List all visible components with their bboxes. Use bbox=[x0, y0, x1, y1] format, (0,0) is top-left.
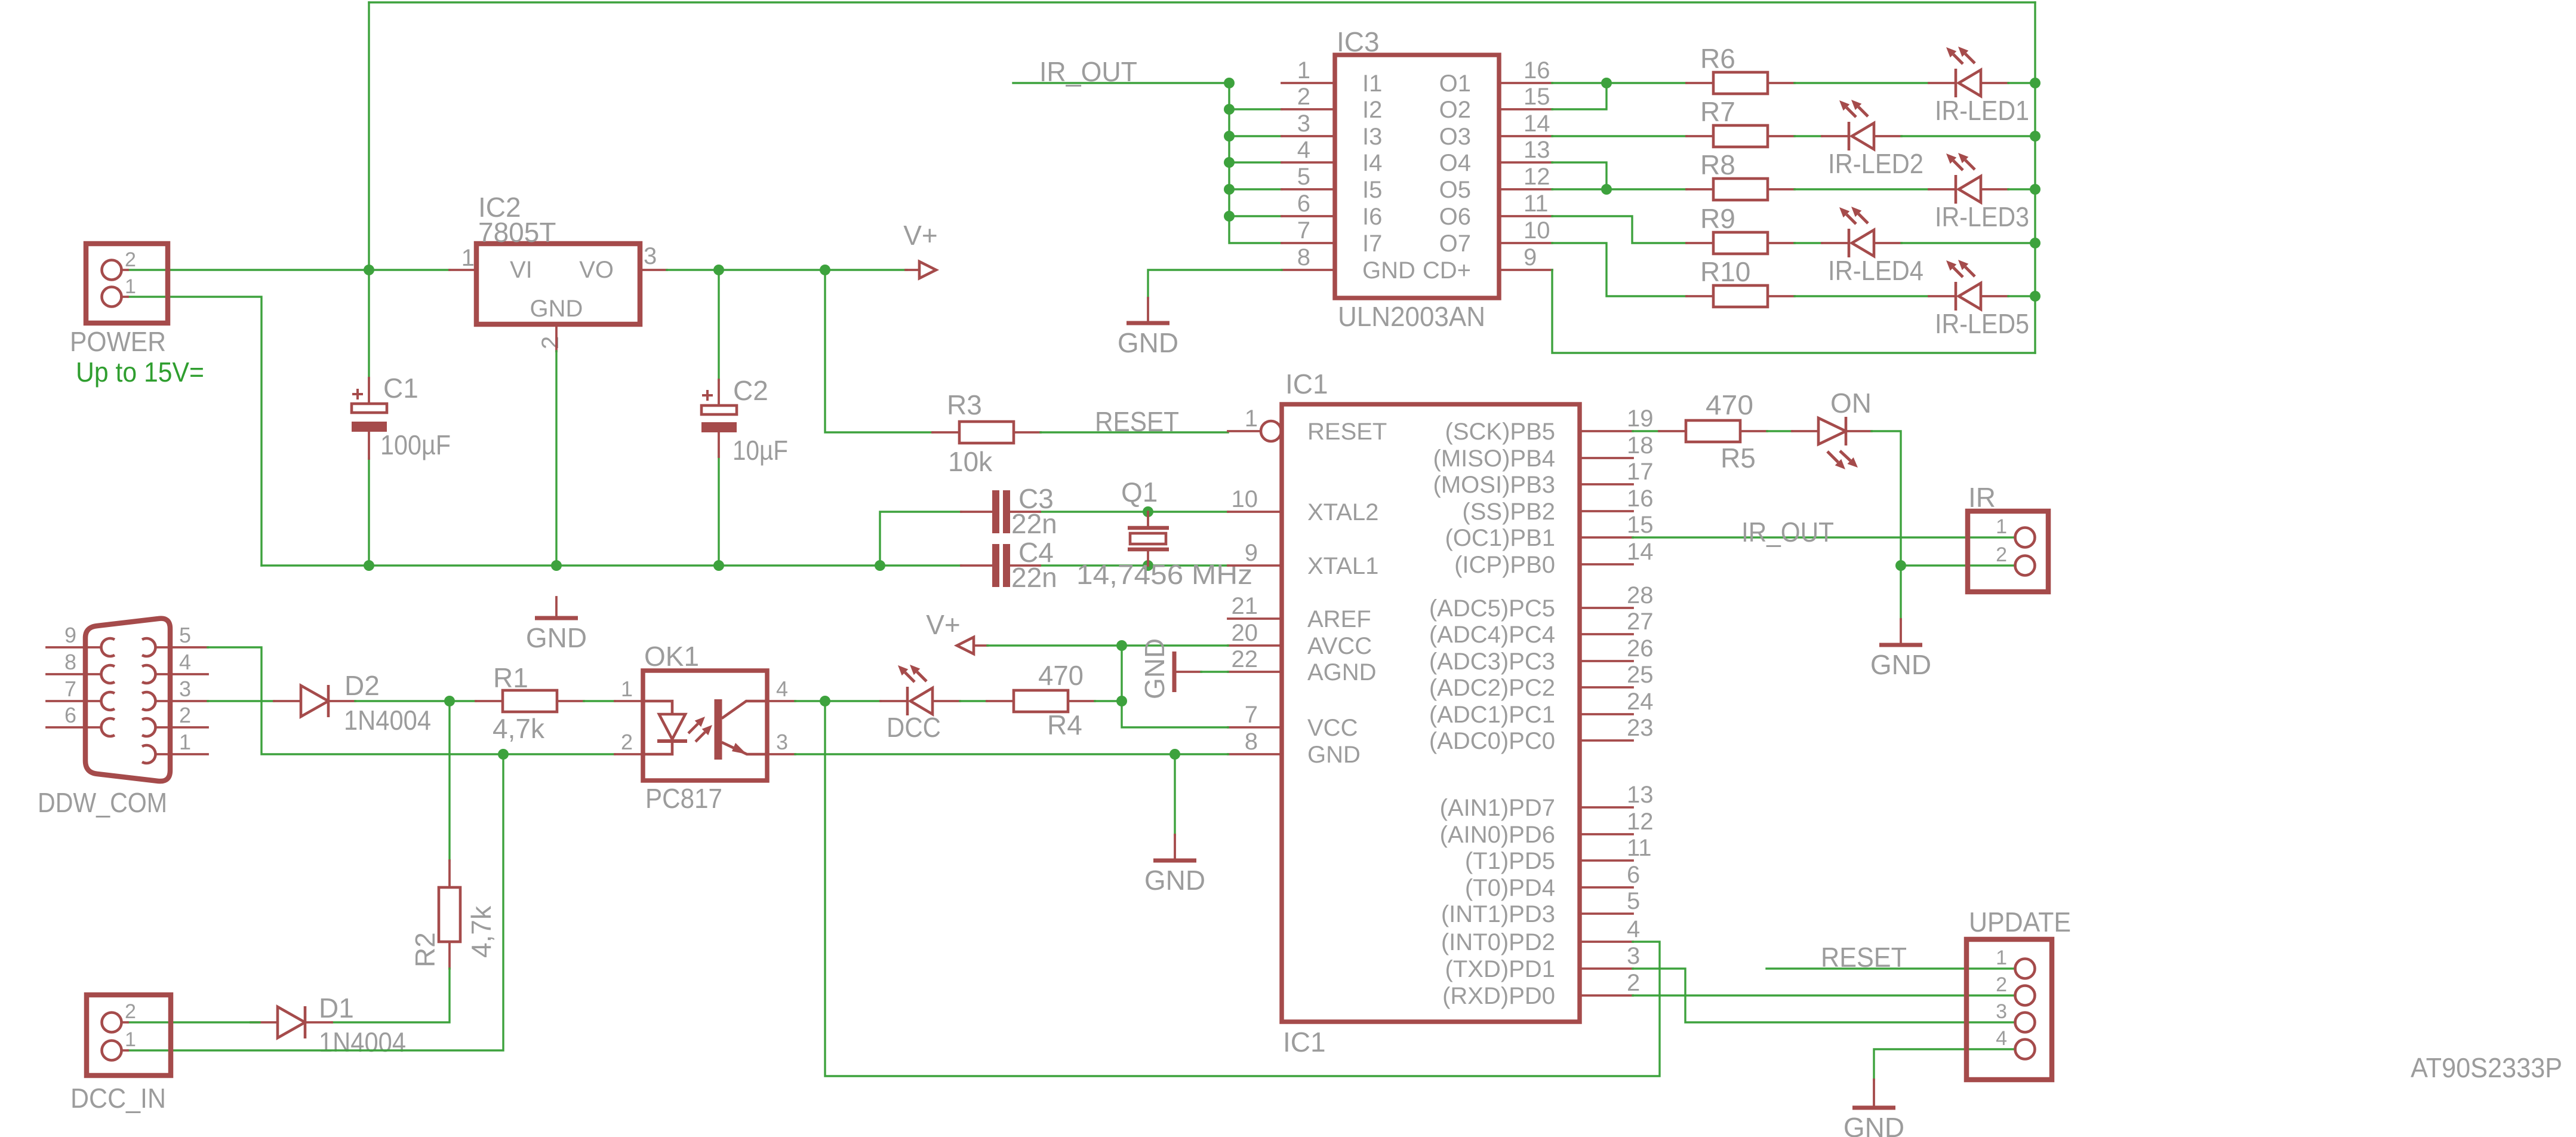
wire V+ top rail bbox=[369, 1, 2035, 3]
node IC2 GND rail dot bbox=[551, 560, 562, 571]
svg-text:GND: GND bbox=[1118, 327, 1178, 358]
svg-text:9: 9 bbox=[1245, 540, 1258, 566]
svg-text:10: 10 bbox=[1232, 486, 1258, 512]
capacitor C2 bbox=[701, 375, 788, 466]
svg-text:2: 2 bbox=[125, 1000, 136, 1023]
svg-text:ULN2003AN: ULN2003AN bbox=[1338, 301, 1485, 332]
svg-text:R1: R1 bbox=[493, 662, 528, 693]
led IR-LED2 bbox=[1822, 100, 1923, 179]
symbol OK1 phototransistor bbox=[718, 699, 767, 760]
svg-text:CD+: CD+ bbox=[1423, 257, 1471, 284]
svg-text:2: 2 bbox=[1627, 970, 1640, 996]
svg-text:D2: D2 bbox=[344, 670, 380, 701]
supply V+ arrow left bbox=[926, 609, 987, 654]
wire O4 join O5 bbox=[1552, 162, 1606, 189]
wire D2 to R1 node bbox=[355, 700, 450, 702]
svg-text:IC1: IC1 bbox=[1283, 1027, 1326, 1058]
svg-text:2: 2 bbox=[1996, 973, 2007, 996]
svg-text:(MISO)PB4: (MISO)PB4 bbox=[1433, 445, 1555, 472]
svg-text:1N4004: 1N4004 bbox=[319, 1027, 406, 1058]
svg-text:(MOSI)PB3: (MOSI)PB3 bbox=[1433, 472, 1555, 498]
wire O2 join O1 bbox=[1552, 83, 1606, 109]
svg-text:(T0)PD4: (T0)PD4 bbox=[1465, 875, 1555, 901]
svg-text:6: 6 bbox=[1297, 190, 1310, 217]
svg-text:I1: I1 bbox=[1362, 70, 1382, 97]
svg-text:4: 4 bbox=[776, 677, 788, 701]
wire PB5 to R5 bbox=[1633, 430, 1659, 432]
svg-text:IR: IR bbox=[1968, 482, 1996, 513]
svg-text:C1: C1 bbox=[383, 373, 418, 404]
node C2 dot bbox=[713, 265, 724, 275]
wire C2 branch bbox=[718, 270, 719, 566]
pin IC1 right stubs bbox=[1580, 431, 1633, 995]
svg-text:4,7k: 4,7k bbox=[493, 713, 545, 744]
resistor R3 bbox=[932, 389, 1041, 477]
svg-text:PC817: PC817 bbox=[645, 783, 722, 814]
svg-text:28: 28 bbox=[1627, 582, 1654, 609]
wire XTAL1 row bbox=[1040, 564, 1228, 566]
svg-text:DCC: DCC bbox=[887, 712, 941, 743]
pin OK1 stubs bbox=[615, 701, 795, 754]
led DCC bbox=[881, 665, 960, 743]
wire R5 to ON led bbox=[1767, 430, 1792, 432]
pin IC3 left stubs bbox=[1282, 83, 1335, 270]
svg-text:1: 1 bbox=[179, 730, 191, 754]
svg-text:14: 14 bbox=[1627, 539, 1654, 565]
label IR_OUT right bbox=[1741, 517, 1834, 548]
svg-text:VI: VI bbox=[510, 257, 533, 283]
resistor R10 bbox=[1686, 256, 1795, 307]
svg-text:AGND: AGND bbox=[1307, 659, 1377, 686]
svg-text:1: 1 bbox=[125, 1028, 136, 1051]
label OK1 pin numbers bbox=[621, 677, 788, 754]
wire PD0 RXD to UPDATE pin2 bbox=[1633, 994, 2015, 996]
svg-text:(ADC2)PC2: (ADC2)PC2 bbox=[1429, 675, 1555, 701]
node LED4 rail dot bbox=[2030, 238, 2041, 248]
led IR-LED4 bbox=[1822, 207, 1923, 286]
svg-text:R10: R10 bbox=[1700, 256, 1750, 287]
wire DCC led to R4 bbox=[960, 700, 987, 702]
svg-text:V+: V+ bbox=[903, 220, 938, 251]
svg-text:16: 16 bbox=[1627, 485, 1654, 512]
wire VO to V+ arrow bbox=[667, 269, 907, 271]
svg-text:18: 18 bbox=[1627, 432, 1654, 459]
svg-text:IC1: IC1 bbox=[1285, 368, 1328, 400]
svg-text:24: 24 bbox=[1627, 689, 1654, 715]
wire node to R1 bbox=[450, 700, 476, 702]
svg-text:GND: GND bbox=[1139, 638, 1170, 699]
svg-text:9: 9 bbox=[64, 623, 76, 647]
pin DB9 stubs bbox=[47, 647, 208, 754]
ground GND at IR bbox=[1870, 619, 1931, 680]
svg-text:14: 14 bbox=[1524, 110, 1550, 137]
svg-text:R3: R3 bbox=[947, 389, 982, 420]
svg-text:V+: V+ bbox=[926, 609, 961, 640]
svg-text:4: 4 bbox=[1627, 916, 1640, 942]
node LED1 rail dot bbox=[2030, 78, 2041, 88]
supply V+ arrow right bbox=[903, 220, 938, 278]
svg-text:I4: I4 bbox=[1362, 150, 1382, 176]
wire R3 branch down bbox=[825, 270, 932, 432]
svg-text:2: 2 bbox=[179, 703, 191, 727]
svg-text:11: 11 bbox=[1627, 835, 1652, 861]
svg-text:(ADC5)PC5: (ADC5)PC5 bbox=[1429, 595, 1555, 622]
svg-text:12: 12 bbox=[1524, 164, 1550, 190]
svg-text:23: 23 bbox=[1627, 715, 1654, 741]
svg-text:GND: GND bbox=[1307, 742, 1361, 768]
wire ON led to GND branch bbox=[1872, 431, 1901, 619]
wire R2 to D1 row bbox=[332, 969, 450, 1022]
svg-text:DDW_COM: DDW_COM bbox=[38, 787, 167, 818]
ic IC1 box bbox=[1282, 368, 1580, 1058]
led IR-LED5 bbox=[1929, 260, 2029, 339]
svg-text:3: 3 bbox=[1627, 943, 1640, 969]
wire R8 to IR-LED3 bbox=[1795, 188, 1929, 190]
svg-text:16: 16 bbox=[1524, 57, 1550, 84]
svg-text:(ADC3)PC3: (ADC3)PC3 bbox=[1429, 649, 1555, 675]
capacitor C4 bbox=[961, 537, 1057, 593]
connector UPDATE bbox=[1966, 906, 2071, 1080]
svg-text:GND: GND bbox=[1144, 865, 1205, 896]
svg-text:GND: GND bbox=[526, 622, 587, 653]
svg-text:VCC: VCC bbox=[1307, 715, 1358, 741]
svg-text:10µF: 10µF bbox=[733, 435, 788, 466]
svg-text:RESET: RESET bbox=[1821, 942, 1907, 973]
wire C1 branch bbox=[368, 270, 370, 566]
svg-text:100µF: 100µF bbox=[380, 429, 451, 460]
wire DCC_IN pin2 to D1 bbox=[128, 1021, 260, 1023]
svg-text:O6: O6 bbox=[1439, 204, 1471, 230]
label RESET net bbox=[1095, 406, 1179, 437]
svg-text:1: 1 bbox=[1996, 515, 2007, 538]
svg-text:I3: I3 bbox=[1362, 124, 1382, 150]
svg-text:GND: GND bbox=[1362, 257, 1415, 284]
resistor R7 bbox=[1686, 96, 1795, 147]
svg-text:27: 27 bbox=[1627, 609, 1654, 635]
led ON bbox=[1792, 388, 1872, 469]
svg-text:11: 11 bbox=[1524, 190, 1549, 217]
pin DB9 contacts bbox=[101, 638, 156, 763]
svg-text:IR_OUT: IR_OUT bbox=[1039, 56, 1137, 87]
svg-text:2: 2 bbox=[1297, 84, 1310, 110]
wire R9 to IR-LED4 bbox=[1795, 242, 1822, 244]
wire PD2 to DCC net bbox=[825, 701, 1660, 1076]
label IR_OUT bbox=[1039, 56, 1137, 87]
label IC3 pin names bbox=[1362, 70, 1471, 284]
node XTAL1 crystal dot bbox=[1143, 560, 1153, 571]
svg-text:470: 470 bbox=[1038, 660, 1084, 691]
wire IR_OUT to IR connector bbox=[1633, 536, 2015, 538]
svg-text:O7: O7 bbox=[1439, 231, 1471, 257]
svg-text:R6: R6 bbox=[1700, 43, 1735, 74]
svg-text:(T1)PD5: (T1)PD5 bbox=[1465, 848, 1555, 874]
pin IC2 VO stub bbox=[640, 269, 667, 271]
node DCC_IN pin1 join dot bbox=[498, 749, 509, 760]
connector IR bbox=[1968, 482, 2048, 592]
connector POWER bbox=[70, 244, 168, 357]
svg-text:5: 5 bbox=[1297, 164, 1310, 190]
resistor R5 bbox=[1659, 389, 1767, 474]
node C3 gnd dot bbox=[875, 560, 885, 571]
svg-text:22n: 22n bbox=[1011, 508, 1057, 539]
svg-text:470: 470 bbox=[1706, 389, 1753, 420]
ground GND under IC2 bbox=[526, 597, 587, 653]
node XTAL2 crystal dot bbox=[1143, 506, 1153, 517]
svg-text:ON: ON bbox=[1830, 388, 1872, 419]
wire R7 to IR-LED2 bbox=[1795, 135, 1822, 137]
resistor R6 bbox=[1686, 43, 1795, 94]
svg-text:AVCC: AVCC bbox=[1307, 633, 1372, 659]
node IC1 GND dot bbox=[1169, 749, 1180, 760]
svg-text:Up to 15V=: Up to 15V= bbox=[76, 357, 204, 388]
svg-text:4: 4 bbox=[1996, 1027, 2007, 1050]
wire IR_OUT to IC3 inputs bbox=[1013, 82, 1228, 84]
wire RESET to UPDATE pin1 bbox=[1766, 967, 2015, 969]
wire R10 to IR-LED5 bbox=[1795, 295, 1929, 297]
node LED3 rail dot bbox=[2030, 184, 2041, 195]
node LED2 rail dot bbox=[2030, 131, 2041, 142]
svg-text:O1: O1 bbox=[1439, 70, 1471, 97]
svg-text:1: 1 bbox=[125, 275, 136, 298]
ground GND at UPDATE bbox=[1843, 1080, 1904, 1137]
label Up to 15V= bbox=[76, 357, 204, 388]
svg-text:IR-LED4: IR-LED4 bbox=[1828, 255, 1923, 286]
wire AVCC branch to VCC bbox=[1122, 646, 1228, 727]
svg-text:GND: GND bbox=[1843, 1112, 1904, 1137]
svg-text:2: 2 bbox=[125, 248, 136, 271]
svg-text:AT90S2333P: AT90S2333P bbox=[2411, 1052, 2562, 1083]
pin IC1 RESET stub with circle bbox=[1228, 421, 1281, 441]
node O5 dot bbox=[1601, 184, 1612, 195]
svg-text:5: 5 bbox=[1627, 888, 1640, 914]
svg-text:22: 22 bbox=[1232, 646, 1258, 672]
label IC1 left pin names bbox=[1307, 419, 1387, 768]
wire LED1 to rail bbox=[2008, 82, 2035, 84]
led IR-LED1 bbox=[1929, 47, 2029, 126]
resistor R2 bbox=[410, 861, 497, 969]
svg-text:3: 3 bbox=[179, 677, 191, 701]
svg-text:(INT0)PD2: (INT0)PD2 bbox=[1441, 929, 1555, 955]
node C2 rail dot bbox=[713, 560, 724, 571]
wire V+ left drop to VI node bbox=[368, 2, 370, 270]
svg-text:3: 3 bbox=[1297, 110, 1310, 137]
svg-text:GND: GND bbox=[530, 296, 583, 322]
svg-text:XTAL1: XTAL1 bbox=[1307, 553, 1378, 579]
svg-text:R8: R8 bbox=[1700, 149, 1735, 180]
node O1 dot bbox=[1601, 78, 1612, 88]
node R3 branch dot bbox=[820, 265, 830, 275]
wire LED4 to rail bbox=[1901, 242, 2035, 244]
svg-text:R5: R5 bbox=[1721, 442, 1756, 474]
svg-text:AREF: AREF bbox=[1307, 606, 1371, 632]
node AVCC dot bbox=[1116, 640, 1127, 651]
wire O6 row to R9 bbox=[1552, 216, 1686, 243]
wire anode right rail bbox=[2034, 2, 2036, 353]
node DCC junction dot bbox=[820, 696, 830, 706]
svg-text:15: 15 bbox=[1627, 512, 1654, 538]
svg-text:22n: 22n bbox=[1011, 562, 1057, 593]
ground GND IC3 bbox=[1118, 298, 1178, 358]
svg-text:6: 6 bbox=[1627, 862, 1640, 888]
label IC1 right pin numbers bbox=[1627, 405, 1654, 996]
wire CD+ to anode rail bbox=[1552, 270, 2035, 353]
svg-text:GND: GND bbox=[1870, 649, 1931, 680]
node R4 AVCC dot bbox=[1116, 696, 1127, 706]
node LED5 rail dot bbox=[2030, 291, 2041, 302]
svg-text:12: 12 bbox=[1627, 809, 1654, 835]
svg-text:5: 5 bbox=[179, 623, 191, 647]
svg-text:DCC_IN: DCC_IN bbox=[70, 1083, 166, 1114]
label IC1 left pin numbers bbox=[1232, 405, 1258, 755]
wire O5 row to R8 bbox=[1552, 188, 1686, 190]
svg-text:POWER: POWER bbox=[70, 326, 166, 357]
svg-text:D1: D1 bbox=[319, 992, 354, 1024]
ground AGND sideways bbox=[1139, 638, 1228, 699]
wire R1 to OK1 pin1 bbox=[584, 700, 615, 702]
led IR-LED3 bbox=[1929, 153, 2029, 232]
wire OK1 pin3 to IC1 GND bbox=[795, 753, 1228, 755]
wire POWER pin1 to GND rail bbox=[128, 297, 261, 566]
svg-text:1N4004: 1N4004 bbox=[344, 705, 431, 736]
wire DCC_IN pin1 up to OK1 pin2 net bbox=[128, 754, 503, 1050]
pin IC1 left stubs bbox=[1228, 512, 1282, 754]
svg-text:25: 25 bbox=[1627, 662, 1654, 688]
wire LED2 to rail bbox=[1901, 135, 2035, 137]
svg-text:(INT1)PD3: (INT1)PD3 bbox=[1441, 901, 1555, 927]
resistor R9 bbox=[1686, 203, 1795, 254]
svg-text:I6: I6 bbox=[1362, 204, 1382, 230]
capacitor C3 bbox=[961, 483, 1057, 539]
wire GND bottom rail bbox=[261, 564, 961, 566]
wire DB9 pin5 to OK1 pin2 bbox=[208, 647, 615, 754]
node C1 top dot bbox=[364, 560, 374, 571]
svg-text:7805T: 7805T bbox=[478, 217, 556, 248]
svg-text:17: 17 bbox=[1627, 459, 1654, 485]
svg-text:O2: O2 bbox=[1439, 97, 1471, 123]
svg-text:10k: 10k bbox=[948, 446, 993, 477]
svg-text:21: 21 bbox=[1232, 593, 1258, 619]
svg-text:1: 1 bbox=[1245, 405, 1258, 432]
svg-text:RESET: RESET bbox=[1095, 406, 1179, 437]
label IC3 pin numbers bbox=[1297, 57, 1550, 271]
svg-text:20: 20 bbox=[1232, 620, 1258, 646]
svg-text:R2: R2 bbox=[410, 932, 441, 967]
diode D1 bbox=[251, 992, 406, 1058]
svg-text:Q1: Q1 bbox=[1121, 477, 1158, 508]
svg-text:IR_OUT: IR_OUT bbox=[1741, 517, 1834, 548]
wire R4 to AVCC branch bbox=[1095, 700, 1122, 702]
svg-text:1: 1 bbox=[461, 245, 475, 271]
wire IC3 GND to ground bbox=[1148, 270, 1282, 298]
ground GND under IC1 bbox=[1144, 754, 1205, 896]
svg-text:2: 2 bbox=[621, 730, 633, 754]
wire O7 row to R10 bbox=[1552, 243, 1686, 296]
pin IC2 GND stub bbox=[555, 324, 558, 351]
wire IC3 input bus bbox=[1229, 83, 1282, 243]
connector DCC_IN bbox=[70, 995, 171, 1114]
svg-text:IC3: IC3 bbox=[1337, 26, 1380, 57]
svg-text:O5: O5 bbox=[1439, 177, 1471, 203]
wire R2 branch down bbox=[448, 701, 450, 861]
wire OK1 pin4 to DCC led bbox=[795, 700, 881, 702]
resistor R4 bbox=[987, 660, 1095, 740]
label DB9 pin numbers bbox=[64, 623, 191, 754]
svg-text:RESET: RESET bbox=[1307, 419, 1387, 445]
resistor R1 bbox=[476, 662, 584, 744]
svg-text:7: 7 bbox=[1297, 217, 1310, 244]
svg-text:(SS)PB2: (SS)PB2 bbox=[1462, 499, 1555, 525]
wire PD1 TXD to UPDATE pin3 bbox=[1633, 969, 2015, 1022]
pin IC3 right stubs bbox=[1499, 83, 1552, 270]
svg-text:8: 8 bbox=[64, 650, 76, 674]
wire UPDATE pin4 to GND bbox=[1874, 1049, 2015, 1080]
svg-text:8: 8 bbox=[1245, 729, 1258, 755]
svg-text:UPDATE: UPDATE bbox=[1969, 906, 2071, 938]
svg-text:1: 1 bbox=[621, 677, 633, 701]
svg-text:8: 8 bbox=[1297, 244, 1310, 271]
node IC3 input dots bbox=[1224, 78, 1235, 222]
connector DDW_COM DB9 shell bbox=[38, 619, 170, 818]
svg-text:(ADC4)PC4: (ADC4)PC4 bbox=[1429, 622, 1555, 648]
wire DB9 pin3 to D2 bbox=[208, 700, 274, 702]
wire R6 to IR-LED1 bbox=[1795, 82, 1929, 84]
svg-text:IR-LED2: IR-LED2 bbox=[1828, 148, 1923, 179]
resistor R8 bbox=[1686, 149, 1795, 200]
svg-text:3: 3 bbox=[1996, 1000, 2007, 1023]
ic IC3 box bbox=[1335, 26, 1499, 332]
svg-text:13: 13 bbox=[1627, 782, 1654, 808]
svg-text:(ADC1)PC1: (ADC1)PC1 bbox=[1429, 702, 1555, 728]
svg-text:2: 2 bbox=[537, 336, 564, 349]
symbol OK1 internal led bbox=[643, 701, 712, 754]
svg-text:(ADC0)PC0: (ADC0)PC0 bbox=[1429, 728, 1555, 754]
svg-text:IR-LED3: IR-LED3 bbox=[1935, 201, 2029, 232]
svg-text:3: 3 bbox=[776, 730, 788, 754]
svg-text:13: 13 bbox=[1524, 137, 1550, 163]
wire O3 row to R7 bbox=[1552, 135, 1686, 137]
wire POWER pin2 to IC2 VI bbox=[128, 269, 450, 271]
svg-text:R7: R7 bbox=[1700, 96, 1735, 127]
crystal Q1 bbox=[1076, 477, 1252, 590]
regulator IC2 7805T bbox=[461, 192, 657, 349]
svg-text:7: 7 bbox=[64, 677, 76, 701]
svg-text:(RXD)PD0: (RXD)PD0 bbox=[1442, 983, 1555, 1009]
wire LED5 to rail bbox=[2008, 295, 2035, 297]
svg-text:4: 4 bbox=[179, 650, 191, 674]
svg-text:O4: O4 bbox=[1439, 150, 1471, 176]
svg-text:(SCK)PB5: (SCK)PB5 bbox=[1445, 419, 1556, 445]
svg-text:(OC1)PB1: (OC1)PB1 bbox=[1445, 525, 1556, 551]
svg-text:3: 3 bbox=[644, 243, 657, 269]
svg-text:IR-LED5: IR-LED5 bbox=[1935, 308, 2029, 339]
svg-text:C2: C2 bbox=[733, 375, 768, 406]
node VI junction dot bbox=[364, 265, 374, 275]
label IC1 right pin names bbox=[1429, 419, 1555, 1009]
wire IR pin2 row bbox=[1901, 564, 2015, 566]
wire RESET net to IC1 pin1 bbox=[1041, 431, 1228, 433]
svg-text:2: 2 bbox=[1996, 543, 2007, 566]
wire LED3 to rail bbox=[2008, 188, 2035, 190]
svg-text:I5: I5 bbox=[1362, 177, 1382, 203]
diode D2 bbox=[274, 670, 431, 736]
node IR gnd dot bbox=[1895, 560, 1906, 571]
pin IC2 VI stub bbox=[450, 269, 476, 271]
svg-text:R4: R4 bbox=[1047, 709, 1082, 740]
wire XTAL2 row bbox=[880, 512, 1228, 566]
svg-text:I7: I7 bbox=[1362, 231, 1382, 257]
svg-text:1: 1 bbox=[1996, 947, 2007, 969]
svg-text:(TXD)PD1: (TXD)PD1 bbox=[1445, 956, 1555, 982]
